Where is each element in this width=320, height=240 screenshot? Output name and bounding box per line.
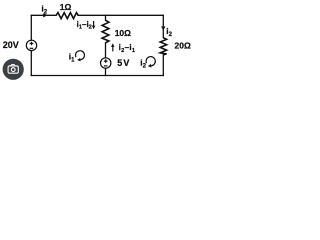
svg-text:i1: i1 bbox=[69, 52, 75, 64]
svg-text:i2: i2 bbox=[140, 58, 146, 70]
svg-text:20V: 20V bbox=[3, 40, 19, 50]
svg-text:5V: 5V bbox=[117, 58, 130, 68]
svg-text:i2: i2 bbox=[166, 26, 172, 38]
svg-text:i1–i2: i1–i2 bbox=[77, 20, 92, 31]
svg-text:i2: i2 bbox=[41, 4, 47, 16]
svg-text:20Ω: 20Ω bbox=[175, 41, 191, 51]
svg-text:10Ω: 10Ω bbox=[115, 28, 131, 38]
svg-text:1Ω: 1Ω bbox=[60, 2, 72, 12]
svg-text:i2–i1: i2–i1 bbox=[119, 43, 136, 54]
